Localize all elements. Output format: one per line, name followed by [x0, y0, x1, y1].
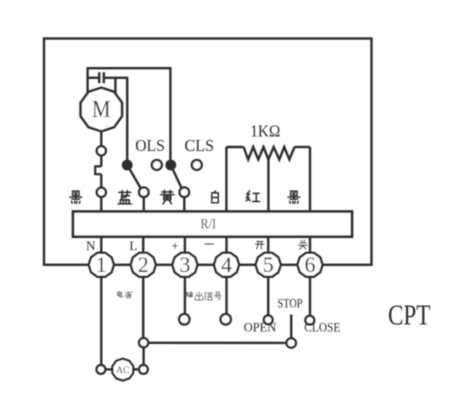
- wire: terminal4 down: [225, 277, 227, 314]
- wire: capacitor branch right: [105, 77, 127, 79]
- label shuchuxinhao(output signal): [185, 292, 192, 297]
- svg-text:6: 6: [305, 252, 316, 277]
- terminal 3: [172, 253, 197, 277]
- wire: yellow lead to R/I: [183, 197, 185, 212]
- pot element lead right: [295, 146, 311, 148]
- output signal node 3: [179, 314, 189, 324]
- terminal circle on black wire (upper): [97, 146, 106, 155]
- wire: to thermal cutout: [100, 155, 102, 166]
- junction circle on L wire: [139, 338, 148, 347]
- terminal 5: [256, 253, 281, 277]
- svg-text:CPT: CPT: [388, 301, 431, 332]
- wire: stub to terminal 4: [225, 238, 227, 254]
- label kai(open): [255, 241, 264, 248]
- wire: CLS drop: [169, 67, 171, 165]
- OLS common (filled): [122, 160, 133, 171]
- pot element lead left: [226, 146, 243, 148]
- wire: terminal5 down: [267, 277, 269, 315]
- wire: L wire lower: [142, 347, 144, 365]
- CLS open contact: [192, 160, 202, 170]
- wire: terminal2 down: [142, 277, 144, 338]
- svg-text:AC: AC: [116, 366, 129, 376]
- label guan(close): [299, 240, 308, 249]
- label hei(black) wire 1: [70, 191, 82, 203]
- svg-text:M: M: [92, 97, 111, 123]
- label dianyuan(power): [117, 291, 122, 297]
- terminal circle on black wire (lower): [97, 188, 106, 197]
- wire: terminal3 down: [184, 277, 186, 314]
- terminal 6: [297, 253, 322, 277]
- wire: capacitor branch left: [88, 77, 98, 79]
- label hong(red) wire 5: [246, 191, 259, 202]
- wire: motor right vertical: [114, 78, 116, 96]
- label bai(white) wire 4: [212, 191, 218, 203]
- label huang(yellow) wire 3: [161, 190, 174, 204]
- terminal 1: [89, 253, 114, 277]
- wire: cutout to lower circle: [100, 174, 102, 188]
- wire: motor to terminal circle: [100, 131, 102, 147]
- wire: stub to terminal 6: [309, 238, 311, 254]
- CLOSE node: [305, 316, 314, 325]
- svg-text:1: 1: [96, 252, 107, 277]
- terminal 2: [131, 253, 156, 277]
- OLS open contact: [152, 160, 162, 170]
- terminal 4: [214, 253, 239, 277]
- wire: AC right link: [134, 368, 139, 370]
- svg-text:2: 2: [138, 252, 149, 277]
- wire: pot white leg: [225, 147, 227, 212]
- svg-text:R/I: R/I: [201, 216, 217, 232]
- svg-text:1KΩ: 1KΩ: [250, 121, 280, 140]
- svg-text:OLS: OLS: [135, 136, 165, 155]
- CLS arm: [171, 165, 182, 190]
- CLS moving contact circle: [180, 187, 190, 197]
- AC source left node: [97, 365, 106, 374]
- thermal cutout jog: [95, 166, 101, 174]
- CLS common (filled): [165, 160, 176, 171]
- capacitor C1: [99, 72, 104, 83]
- label lan(blue) wire 2: [118, 191, 131, 204]
- svg-text:OPEN: OPEN: [244, 321, 277, 335]
- wire: stub to terminal 5: [267, 238, 269, 254]
- wire: stub to terminal 2: [142, 238, 144, 254]
- wire: terminal6 down: [309, 277, 311, 316]
- resistor R1 1Kohm zigzag: [244, 147, 295, 160]
- OLS moving contact circle: [139, 187, 149, 197]
- wire: OLS drop: [126, 77, 128, 165]
- OPEN node: [264, 315, 273, 324]
- wire: top wire to CLS: [88, 67, 171, 69]
- AC source right node: [139, 365, 148, 374]
- svg-text:4: 4: [221, 252, 232, 277]
- wire: pot black leg: [309, 147, 311, 212]
- enclosure frame: [44, 39, 372, 265]
- wire: STOP stub: [290, 315, 292, 339]
- wire: motor left vertical: [86, 67, 88, 96]
- svg-text:+: +: [171, 238, 178, 253]
- wire: stub to terminal 1: [100, 238, 102, 254]
- wire: black lead to R/I: [100, 197, 102, 212]
- svg-text:N: N: [86, 238, 96, 253]
- svg-text:CLS: CLS: [185, 136, 215, 155]
- svg-text:L: L: [129, 238, 137, 253]
- AC source G1: [112, 359, 133, 381]
- STOP node circle: [287, 338, 296, 347]
- wire: blue lead to R/I: [143, 197, 145, 212]
- label hei(black) wire 6: [288, 191, 300, 203]
- motor M1: [81, 88, 122, 132]
- wire: AC left link: [105, 368, 112, 370]
- output signal node 4: [221, 314, 231, 324]
- svg-text:3: 3: [179, 252, 190, 277]
- R/I converter U1: [73, 212, 352, 237]
- wire: stub to terminal 3: [184, 238, 186, 254]
- wire: stop bus horizontal: [148, 342, 286, 345]
- svg-text:STOP: STOP: [278, 296, 303, 310]
- wire: pot wiper (red): [267, 160, 269, 213]
- OLS arm: [127, 165, 141, 190]
- label minus (yi): [205, 240, 214, 249]
- svg-text:CLOSE: CLOSE: [304, 320, 340, 334]
- svg-text:5: 5: [263, 252, 274, 277]
- wire: terminal1 down: [100, 277, 102, 365]
